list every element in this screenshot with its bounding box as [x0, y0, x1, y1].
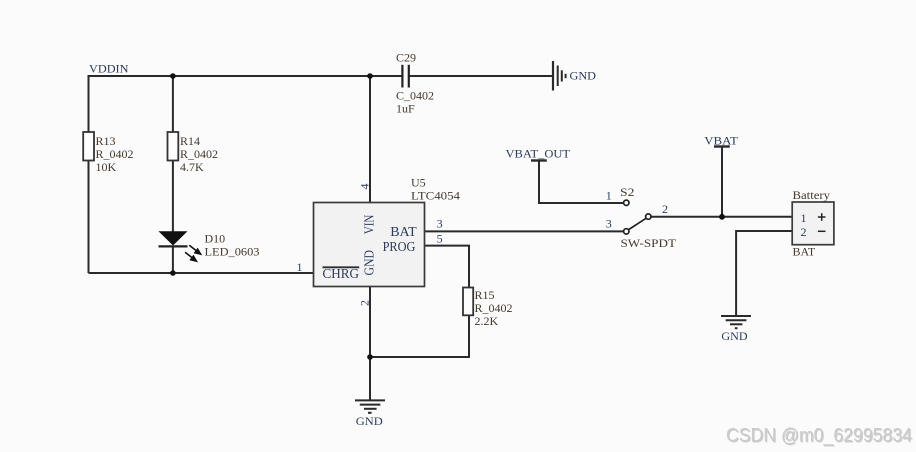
- svg-text:2: 2: [801, 225, 807, 239]
- svg-text:3: 3: [437, 217, 443, 231]
- svg-text:D10: D10: [205, 232, 226, 246]
- svg-text:R13: R13: [96, 134, 116, 148]
- svg-text:R_0402: R_0402: [96, 147, 134, 161]
- svg-text:2.2K: 2.2K: [475, 314, 499, 328]
- svg-text:CSDN @m0_62995834: CSDN @m0_62995834: [726, 426, 912, 447]
- svg-text:VIN: VIN: [363, 215, 378, 235]
- svg-text:BAT: BAT: [793, 245, 816, 259]
- svg-text:4: 4: [357, 184, 371, 190]
- svg-text:PROG: PROG: [383, 240, 416, 255]
- svg-text:GND: GND: [356, 414, 383, 428]
- svg-text:1: 1: [297, 260, 303, 274]
- svg-text:U5: U5: [411, 176, 426, 190]
- svg-text:3: 3: [606, 217, 612, 231]
- svg-text:VDDIN: VDDIN: [89, 62, 129, 76]
- svg-text:GND: GND: [363, 250, 378, 276]
- svg-text:C_0402: C_0402: [396, 89, 434, 103]
- svg-text:BAT: BAT: [390, 225, 417, 240]
- svg-text:CHRG: CHRG: [323, 267, 360, 282]
- svg-text:R15: R15: [475, 288, 495, 302]
- svg-text:1: 1: [606, 189, 612, 203]
- svg-text:2: 2: [357, 300, 371, 306]
- svg-text:GND: GND: [570, 69, 597, 83]
- svg-text:Battery: Battery: [793, 188, 831, 202]
- svg-text:R14: R14: [180, 134, 200, 148]
- svg-text:R_0402: R_0402: [180, 147, 218, 161]
- svg-text:R_0402: R_0402: [475, 301, 513, 315]
- svg-text:2: 2: [662, 202, 668, 216]
- svg-text:C29: C29: [396, 51, 416, 65]
- svg-text:1uF: 1uF: [396, 102, 415, 116]
- svg-text:10K: 10K: [96, 160, 117, 174]
- svg-text:4.7K: 4.7K: [180, 160, 204, 174]
- svg-text:LTC4054: LTC4054: [411, 189, 460, 203]
- svg-text:VBAT: VBAT: [704, 134, 738, 148]
- svg-text:GND: GND: [721, 329, 748, 343]
- svg-text:VBAT_OUT: VBAT_OUT: [506, 147, 571, 161]
- svg-text:S2: S2: [620, 185, 635, 199]
- svg-text:LED_0603: LED_0603: [205, 245, 260, 259]
- svg-text:SW-SPDT: SW-SPDT: [621, 236, 677, 250]
- svg-text:1: 1: [801, 211, 807, 225]
- svg-text:5: 5: [437, 232, 443, 246]
